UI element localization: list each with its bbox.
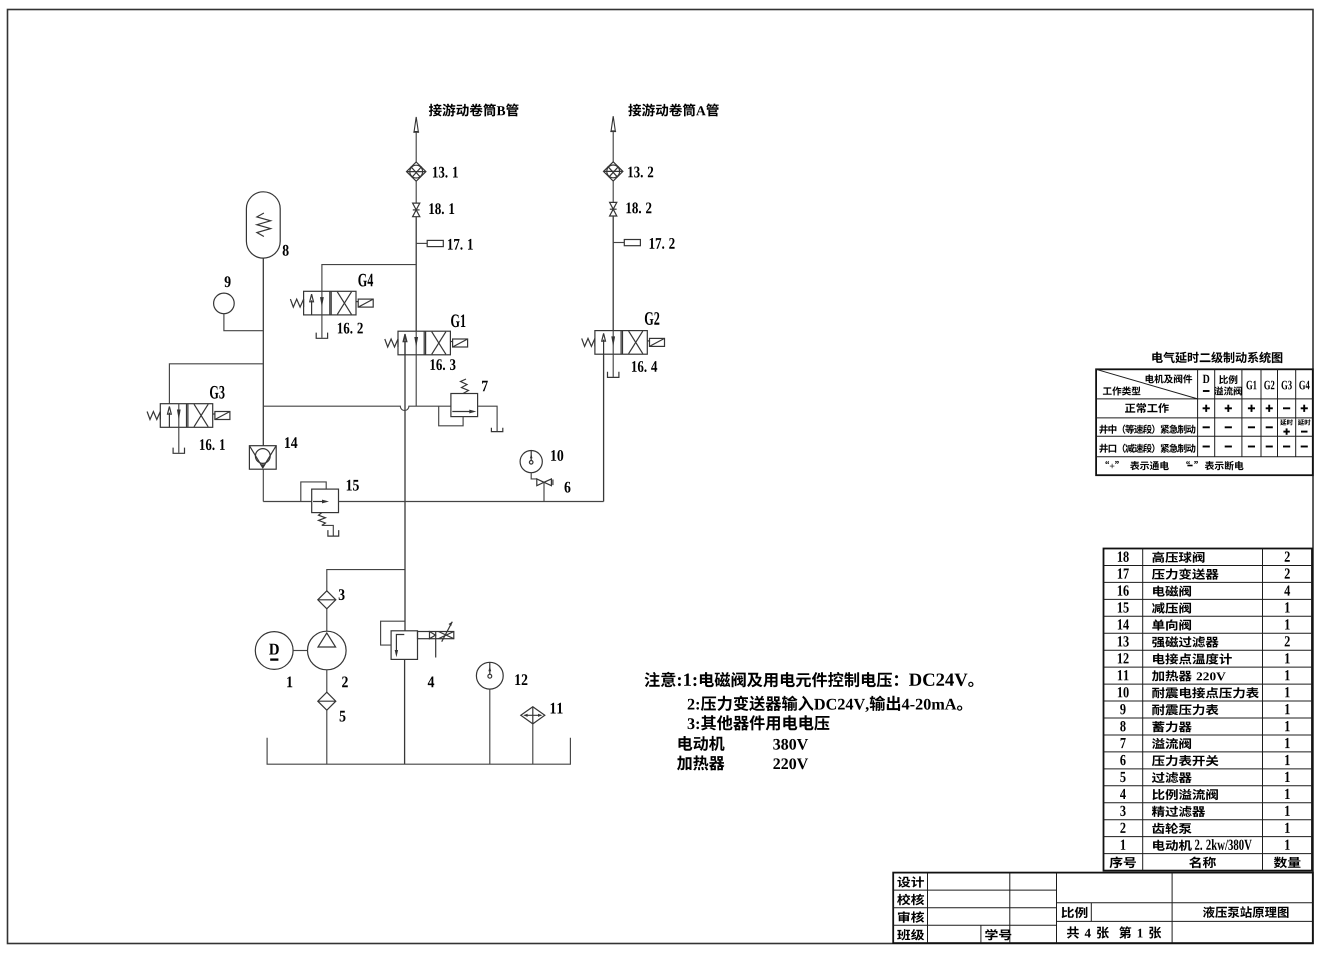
wire suction [326, 710, 328, 764]
header D- [1203, 375, 1210, 391]
wire G3 drain [178, 427, 180, 453]
wire heater [532, 724, 534, 764]
label 2 [342, 677, 348, 688]
solenoid valve G4 symbol [290, 291, 373, 315]
header G3 [1282, 381, 1292, 390]
label 1 [287, 677, 292, 688]
row wellhead braking [1099, 444, 1308, 453]
solenoid valve G3 symbol [147, 404, 230, 428]
oil tank [267, 738, 570, 764]
parts row 11 加热器 220V [1118, 670, 1290, 681]
gauge switch 6 symbol [531, 473, 553, 502]
wire G4 riser [322, 265, 416, 292]
header G1 [1246, 381, 1256, 390]
label 4 [428, 677, 434, 688]
label 7 [482, 381, 488, 392]
header G4 [1299, 381, 1309, 390]
wire branch to G3 [169, 364, 263, 404]
ball valve 18.2 symbol [610, 202, 617, 216]
solenoid valve G2 symbol [582, 331, 665, 355]
wire pressure line low [339, 501, 604, 503]
arrow pipe B outlet [413, 117, 419, 162]
wire check valve to line [263, 469, 311, 501]
note line 1 [645, 672, 974, 688]
label sheet count [1067, 926, 1161, 938]
solenoid valve G1 symbol [385, 331, 468, 355]
parts row 3 精过滤器 [1120, 806, 1289, 817]
parts row 17 压力变送器 [1118, 568, 1290, 579]
parts row 5 过滤器 [1120, 772, 1289, 783]
tank symbol under G3 [173, 448, 184, 454]
label 16.2 [338, 323, 363, 334]
header 电机及阀件 [1146, 374, 1193, 383]
label 3 [339, 589, 345, 600]
label 校核 [897, 894, 924, 905]
label 审核 [898, 911, 924, 922]
label 15 [347, 480, 359, 491]
parts row 6 压力表开关 [1120, 755, 1289, 766]
wire G2 flow down [603, 354, 605, 501]
label 18.1 [429, 203, 454, 214]
wire [415, 217, 417, 332]
tank symbol under G4 [316, 333, 327, 339]
temperature gauge 12 symbol [476, 662, 503, 689]
pressure transmitter 17.2 symbol [613, 240, 640, 246]
wire pump to filter5 [326, 670, 328, 692]
pressure transmitter 17.1 symbol [416, 240, 443, 246]
parts row 10 耐震电接点压力表 [1118, 687, 1290, 698]
label G2 [645, 312, 659, 325]
label 14 [285, 437, 297, 448]
parts row 16 电磁阀 [1118, 585, 1290, 596]
proportional relief valve 4 symbol [381, 621, 454, 659]
label 6 [565, 482, 571, 493]
drawing title 液压泵站原理图 [1203, 906, 1289, 918]
wire [415, 181, 417, 203]
wire filter3 to pump [326, 609, 328, 631]
label 5 [340, 711, 346, 722]
label 13.1 [433, 167, 458, 178]
label 班级 [897, 929, 924, 940]
label 11 [551, 703, 563, 714]
wire gauge 9 [224, 314, 263, 331]
parts row 7 溢流阀 [1121, 738, 1290, 749]
filter 13.2 symbol [604, 162, 623, 181]
electrical sequence table grid [1096, 369, 1313, 475]
label 13.2 [628, 167, 653, 178]
parts row 4 比例溢流阀 [1120, 789, 1290, 800]
filter 5 symbol [318, 692, 336, 710]
parts header row [1109, 857, 1300, 869]
label G3 [210, 386, 225, 399]
label G4 [358, 274, 373, 287]
note line 4 [679, 736, 809, 751]
header 工作类型 [1103, 386, 1141, 395]
check valve 14 symbol [249, 446, 276, 470]
label G1 [451, 314, 465, 327]
wire G1 flow to pump line [404, 334, 406, 630]
header 比例溢流阀 [1214, 375, 1242, 395]
wire [612, 216, 614, 331]
label 12 [515, 674, 527, 685]
electric motor 1 symbol [255, 632, 307, 670]
tank symbol under G2 [608, 372, 619, 378]
arrow pipe A outlet [610, 116, 616, 162]
note line 3 [688, 715, 830, 730]
pressure gauge 9 symbol [214, 293, 235, 314]
parts row 14 单向阀 [1118, 619, 1290, 630]
relief valve 7 symbol [439, 379, 503, 432]
ball valve 18.1 symbol [413, 203, 420, 217]
heater 11 symbol [521, 707, 545, 724]
label 8 [283, 245, 289, 256]
label 16.4 [632, 361, 657, 372]
note line 5 [677, 755, 808, 770]
label 17.1 [448, 239, 473, 250]
label 学号 [985, 929, 1011, 940]
row mid-shaft braking [1099, 419, 1310, 435]
header G2 [1264, 381, 1274, 390]
parts row 2 齿轮泵 [1120, 823, 1289, 834]
label 设计 [897, 876, 924, 887]
wire pressure line [263, 355, 451, 411]
row normal work [1125, 403, 1308, 413]
label 比例 [1062, 907, 1088, 918]
title block grid [893, 873, 1313, 944]
table title [1152, 352, 1282, 364]
wire accumulator to check valve [262, 258, 264, 446]
wire gauge12 [489, 689, 491, 764]
note line 2 [688, 696, 963, 712]
parts row 8 蓄力器 [1120, 721, 1289, 732]
table footnote [1105, 461, 1243, 470]
accumulator 8 symbol [246, 192, 280, 258]
parts list grid [1104, 549, 1313, 871]
fine filter 3 symbol [318, 591, 336, 609]
wire pump branch [327, 570, 405, 591]
label 17.2 [650, 238, 675, 249]
parts row 13 强磁过滤器 [1118, 636, 1290, 647]
parts row 12 电接点温度计 [1118, 653, 1290, 664]
label 18.2 [626, 202, 651, 213]
label 16.1 [200, 439, 225, 450]
parts row 1 电动机 [1121, 839, 1290, 851]
parts row 9 耐震压力表 [1120, 704, 1290, 715]
label 16.3 [430, 359, 455, 370]
pressure gauge 10 symbol [520, 451, 542, 473]
wire G2 drain [612, 354, 614, 377]
wire G4 drain [321, 315, 323, 338]
label pipe A [628, 104, 718, 117]
label pipe B [429, 104, 519, 117]
label 10 [551, 450, 563, 461]
wire valve4 to tank [404, 659, 406, 764]
reducing valve 15 symbol [301, 482, 339, 536]
parts row 15 减压阀 [1118, 602, 1290, 613]
label 9 [225, 276, 231, 287]
filter 13.1 symbol [407, 162, 426, 181]
gear pump 2 symbol [308, 631, 347, 670]
parts row 18 高压球阀 [1118, 552, 1290, 563]
wire [612, 181, 614, 202]
